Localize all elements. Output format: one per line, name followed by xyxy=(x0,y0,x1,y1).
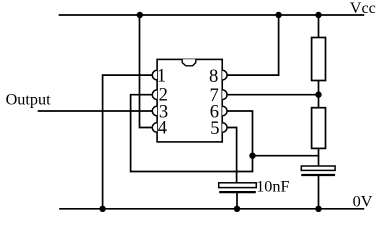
svg-text:8: 8 xyxy=(209,66,218,87)
svg-text:4: 4 xyxy=(158,118,167,139)
svg-text:Output: Output xyxy=(6,91,51,109)
svg-text:0V: 0V xyxy=(353,192,373,211)
svg-text:10nF: 10nF xyxy=(256,178,289,196)
svg-text:5: 5 xyxy=(210,118,219,139)
svg-text:1: 1 xyxy=(157,66,166,87)
svg-text:Vcc: Vcc xyxy=(350,0,376,17)
